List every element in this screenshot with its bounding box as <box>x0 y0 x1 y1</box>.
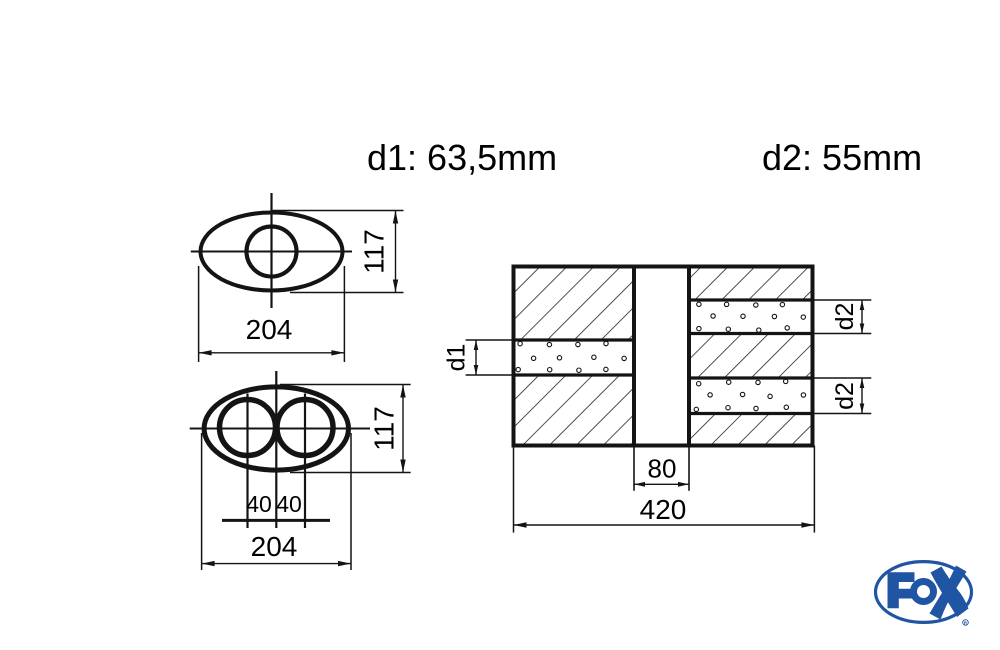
dim 420 left extension line <box>513 446 515 533</box>
view B dim 117 bottom extension line <box>290 472 411 474</box>
dim d1 arrow down <box>474 365 479 375</box>
view B dim 204 arrow left <box>202 561 215 566</box>
view B dim 117 dimension line <box>402 385 404 473</box>
chamber hatching left-top <box>514 267 635 341</box>
svg-text:117: 117 <box>359 229 390 274</box>
view A oval shell <box>201 213 343 291</box>
view B left pipe centerline <box>246 394 248 529</box>
dim 420 dimension line <box>514 524 815 526</box>
dim d1 text <box>443 344 471 372</box>
dim d2 upper arrow down <box>860 324 865 334</box>
right upper band bottom line <box>689 332 813 335</box>
view A dim 117 top extension line <box>272 210 404 212</box>
right upper band top line <box>689 298 813 301</box>
svg-text:40: 40 <box>246 491 272 517</box>
view B vertical centerline <box>275 371 277 528</box>
dim d1 bottom extension line <box>466 374 514 376</box>
svg-text:d1: d1 <box>443 344 471 372</box>
dim d2 upper dimension line <box>861 300 863 334</box>
dim 420 arrow left <box>514 522 527 527</box>
dim d1 arrow up <box>474 340 479 350</box>
chamber hatching right-middle <box>689 334 813 379</box>
svg-text:117: 117 <box>369 406 400 451</box>
view B right pipe centerline <box>304 394 306 529</box>
dim d2 upper arrow up <box>860 300 865 310</box>
dim 80 dimension line <box>634 483 689 485</box>
svg-text:40: 40 <box>276 491 302 517</box>
FOX logo letter X <box>930 566 969 620</box>
view B dim 204 dimension line <box>202 563 351 565</box>
view A dim 204 right extension line <box>343 266 345 362</box>
dim 420 arrow right <box>801 522 814 527</box>
dim d2 lower top extension line <box>813 377 872 379</box>
dim d2 lower arrow up <box>860 378 865 388</box>
view A inner pipe circle d1 <box>247 227 297 277</box>
svg-text:80: 80 <box>648 454 677 484</box>
view B horizontal centerline <box>190 427 370 429</box>
FOX logo registered mark <box>963 620 969 626</box>
view B dim 204 right extension line <box>350 433 352 570</box>
dim d2 lower dimension line <box>861 378 863 414</box>
view B dim 117 arrow up <box>400 385 405 398</box>
dim 420 right extension line <box>813 446 815 533</box>
right lower band top line <box>689 376 813 379</box>
dim d2 lower arrow down <box>860 404 865 414</box>
dim d1 top extension line <box>466 339 514 341</box>
dim d2 upper bottom extension line <box>813 333 872 335</box>
svg-text:420: 420 <box>640 494 687 525</box>
dim 80 left extension line <box>633 446 635 491</box>
view A dim 204 left extension line <box>198 266 200 362</box>
absorber dots right lower band <box>694 379 806 411</box>
dim d2 upper text <box>831 303 859 331</box>
view B dim 117 top extension line <box>280 384 411 386</box>
chamber hatching right-top <box>689 267 813 301</box>
view A horizontal centerline <box>191 250 352 252</box>
view B dim 204 left extension line <box>201 433 203 570</box>
svg-text:d2: d2 <box>831 303 859 331</box>
FOX logo letter O <box>914 582 934 602</box>
muffler body outline <box>514 267 813 446</box>
svg-text:d2: 55mm: d2: 55mm <box>762 137 922 178</box>
view B left pipe circle <box>220 400 276 456</box>
view B dim 117 arrow down <box>400 460 405 473</box>
dim d2 lower bottom extension line <box>813 413 872 415</box>
absorber dots right upper band <box>697 302 806 332</box>
svg-text:204: 204 <box>246 314 293 345</box>
view A dim 117 dimension line <box>395 211 397 293</box>
view A dim 204 arrow right <box>331 350 344 355</box>
dim 80 right extension line <box>688 446 690 491</box>
left absorber band bottom line <box>514 373 635 376</box>
svg-text:d1: 63,5mm: d1: 63,5mm <box>367 137 557 178</box>
view A dim 117 arrow up <box>393 211 398 224</box>
FOX logo oval <box>876 562 972 623</box>
svg-text:d2: d2 <box>831 382 859 410</box>
dim d2 upper top extension line <box>813 299 872 301</box>
view A dim 204 arrow left <box>199 350 212 355</box>
chamber hatching left-bottom <box>514 375 635 446</box>
svg-text:204: 204 <box>251 531 298 562</box>
view A dim 117 arrow down <box>393 280 398 293</box>
view A vertical centerline <box>270 193 272 308</box>
right lower band bottom line <box>689 412 813 415</box>
center pipe right wall <box>687 267 691 446</box>
center pipe left wall <box>632 267 636 446</box>
view B dim 117 text <box>369 406 400 451</box>
left absorber band top line <box>514 338 635 341</box>
view B right pipe circle <box>277 400 333 456</box>
dim 80 arrow right <box>678 482 689 487</box>
view B oval shell <box>204 387 348 470</box>
dim d1 dimension line <box>475 340 477 375</box>
view A dim 117 text <box>359 229 390 274</box>
absorber dots left band <box>516 341 626 372</box>
FOX logo letter F <box>888 572 915 608</box>
view A dim 117 bottom extension line <box>290 292 404 294</box>
chamber hatching right-bottom <box>689 414 813 446</box>
view B dim 204 arrow right <box>338 561 351 566</box>
dim 80 arrow left <box>634 482 645 487</box>
view B dim 40-40 dimension line <box>222 519 330 522</box>
dim d2 lower text <box>831 382 859 410</box>
view A dim 204 dimension line <box>199 352 345 354</box>
